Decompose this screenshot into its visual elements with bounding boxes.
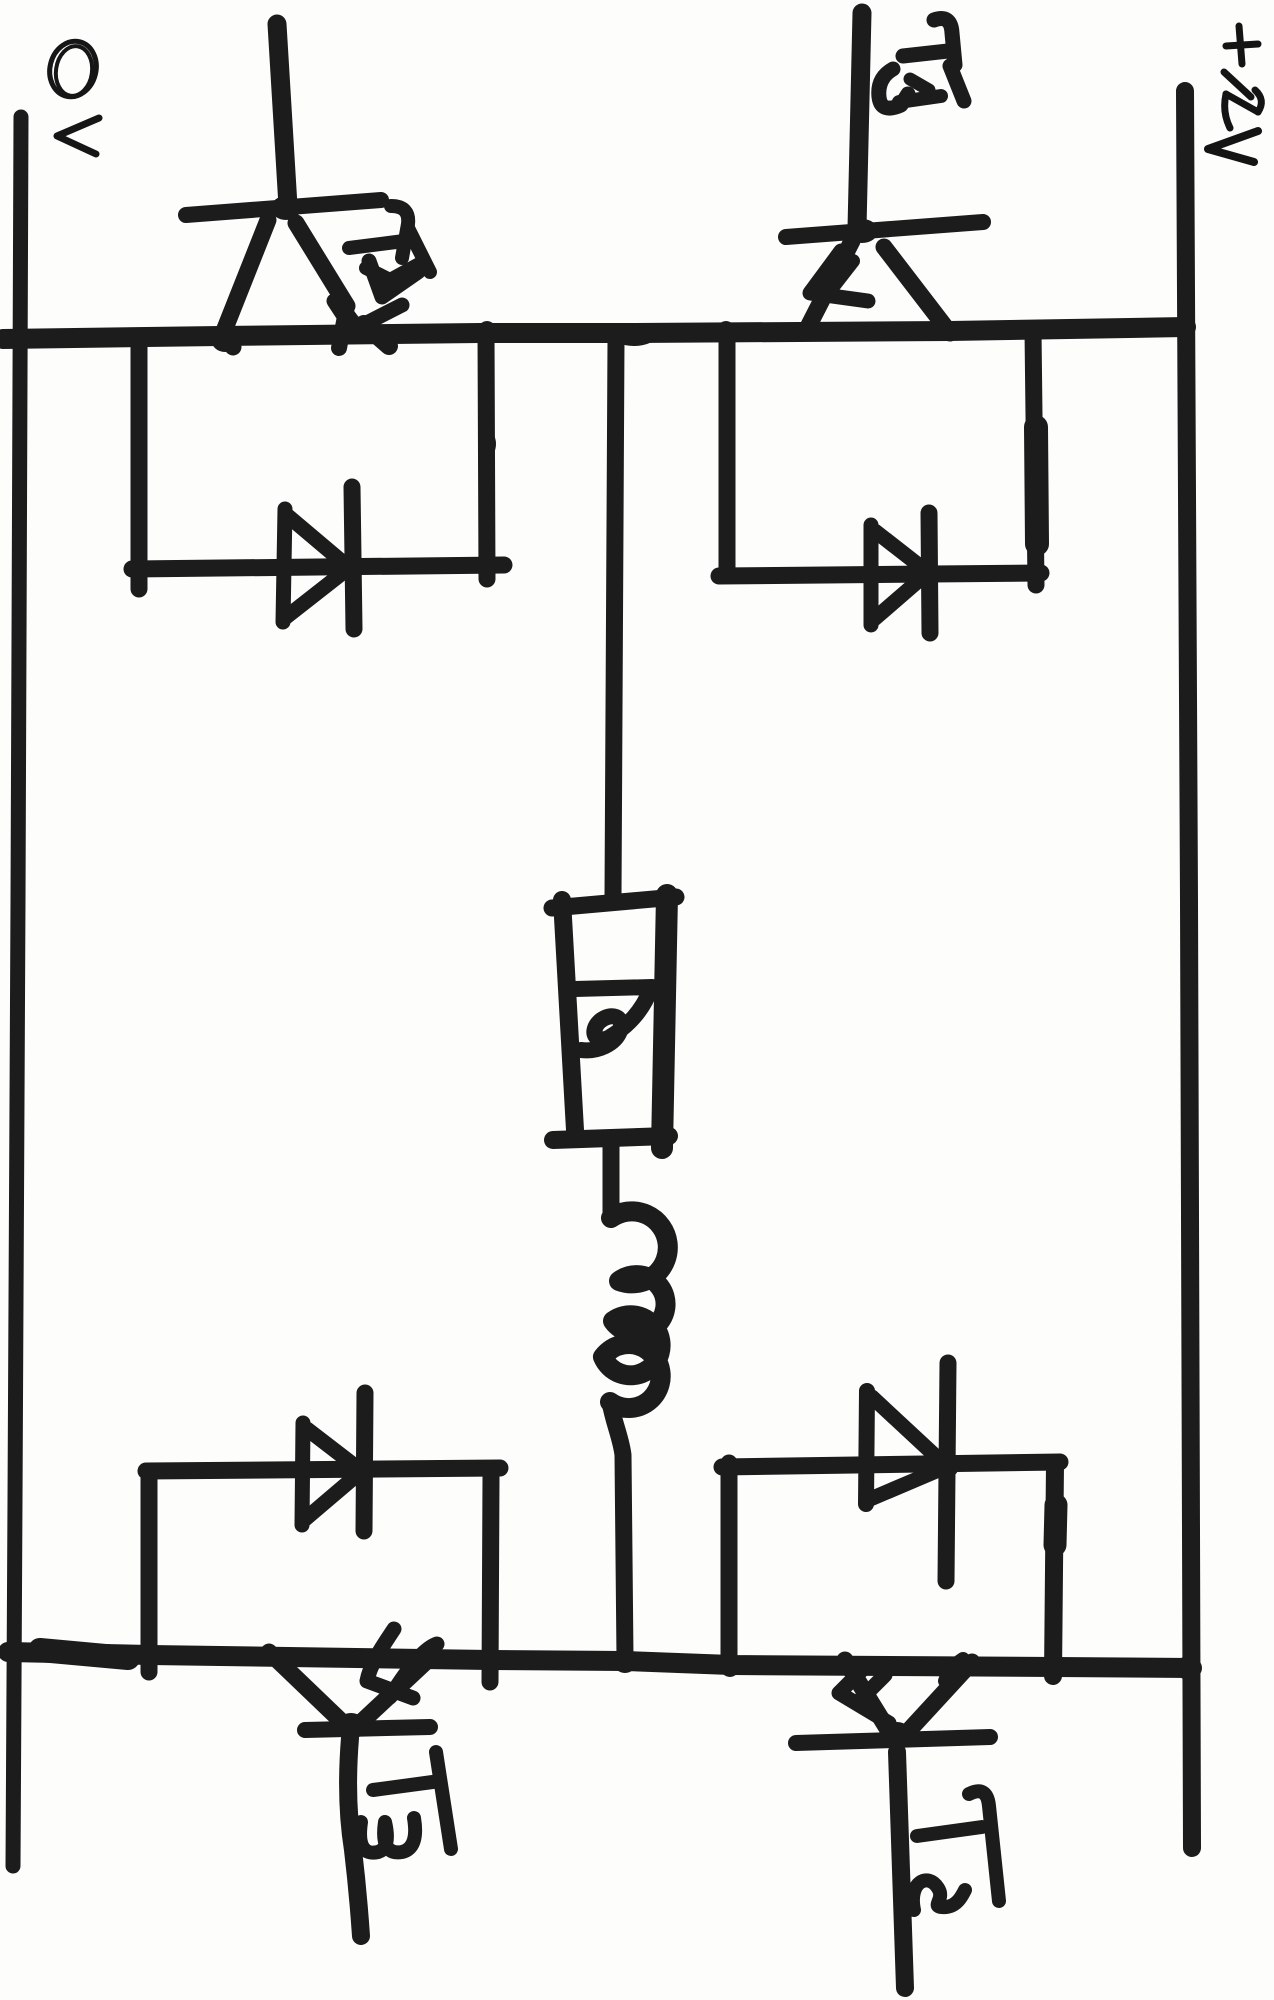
label T1 [879,19,964,109]
T4 left leg [224,220,268,347]
T3 base lead [348,1738,361,1936]
junction top wire / T4 left leg [211,326,239,352]
T2 base lead [897,1752,905,1988]
inductor L (coil) [603,1211,668,1408]
label 0V [44,36,102,154]
R box right [662,895,667,1148]
junction T2 legs/base bar [882,1722,912,1748]
freewheel diode D4 loop left wire [131,340,148,589]
T1 emitter leg [806,241,852,331]
junction top wire / D4 right wire [477,321,497,345]
transistor T4 (upper-left) [186,24,418,348]
D4 loop right wire blob [478,430,496,458]
T1 right leg [884,247,950,333]
label R [575,987,652,1050]
wire thick segment left [40,1650,128,1658]
diode D4 [283,487,363,629]
T3 base bar [305,1727,430,1730]
rail 0V (left vertical supply rail) [13,117,21,1866]
junction bottom wire / D3 right wire [479,1650,501,1674]
freewheel diode D2 loop top wire [722,1462,1060,1467]
R box bottom [553,1136,669,1140]
R box top [552,897,676,908]
T2 emitter arrow [839,1671,889,1723]
R box left [562,900,575,1130]
T2 right leg [902,1662,972,1738]
T4 emitter leg [296,223,347,306]
wire box to inductor [603,1142,620,1218]
transistor T1 (upper-right) [786,13,983,333]
T3 left leg [269,1652,342,1722]
D4 loop bottom wire [132,565,504,569]
resistor R (load box) [552,895,676,1148]
T1 base bar [786,222,983,237]
T3 emitter arrow [367,1629,413,1698]
D3 loop left wire [141,1472,158,1672]
label T3 [360,1752,451,1853]
D2 loop right wire bulge [1055,1505,1056,1545]
label T4 [349,206,430,280]
rail +12V (right vertical supply rail) [1185,91,1192,1848]
junction bottom wire / load wire [613,1649,637,1673]
T4 emitter arrow [369,261,418,297]
diode D3 [302,1393,374,1531]
junction top wire / D1 left wire [716,321,736,345]
T2 base bar [796,1737,990,1743]
wire inductor to bottom node [610,1402,625,1658]
diode D1 [871,513,941,633]
T3 emitter leg [354,1656,432,1729]
D2 loop right wire [1053,1464,1055,1676]
T4 collector lead [277,24,288,206]
junction top wire / D1 right wire [1023,321,1047,341]
T1 collector lead [857,13,862,228]
top wire (node between upper transistors and load) [3,327,1186,339]
freewheel diode D1 loop left wire [719,338,736,570]
T2 emitter leg [845,1660,890,1733]
T1 emitter arrow [810,251,868,301]
junction bottom wire / D2 left wire [720,1655,740,1677]
D1 loop right wire doubled segment [1036,427,1037,544]
D2 loop left wire [721,1463,738,1668]
T4 base bar [186,200,381,215]
load wire from top node [613,340,616,896]
label +12V [1208,26,1261,162]
transistor T3 (lower-left) [269,1629,437,1936]
D1 loop right wire [1033,331,1036,585]
label T2 [913,1791,999,1910]
freewheel diode D3 loop top wire [146,1468,500,1471]
D4 loop right wire [486,332,487,579]
junction bottom wire / rail [1176,1656,1200,1680]
junction T1 collector/base bar [846,219,878,243]
bottom wire (node between lower transistors and load) [8,1652,1192,1668]
D1 loop bottom wire [719,573,1041,576]
junction bottom wire / D3 left wire [140,1645,160,1667]
junction T4 collector/base bar [271,196,301,220]
junction top wire / load wire [611,324,657,346]
junction T3 legs/base bar [336,1713,366,1739]
D3 loop right wire [490,1477,491,1682]
transistor T2 (lower-right) [796,1659,990,1988]
diode D2 [866,1363,959,1581]
